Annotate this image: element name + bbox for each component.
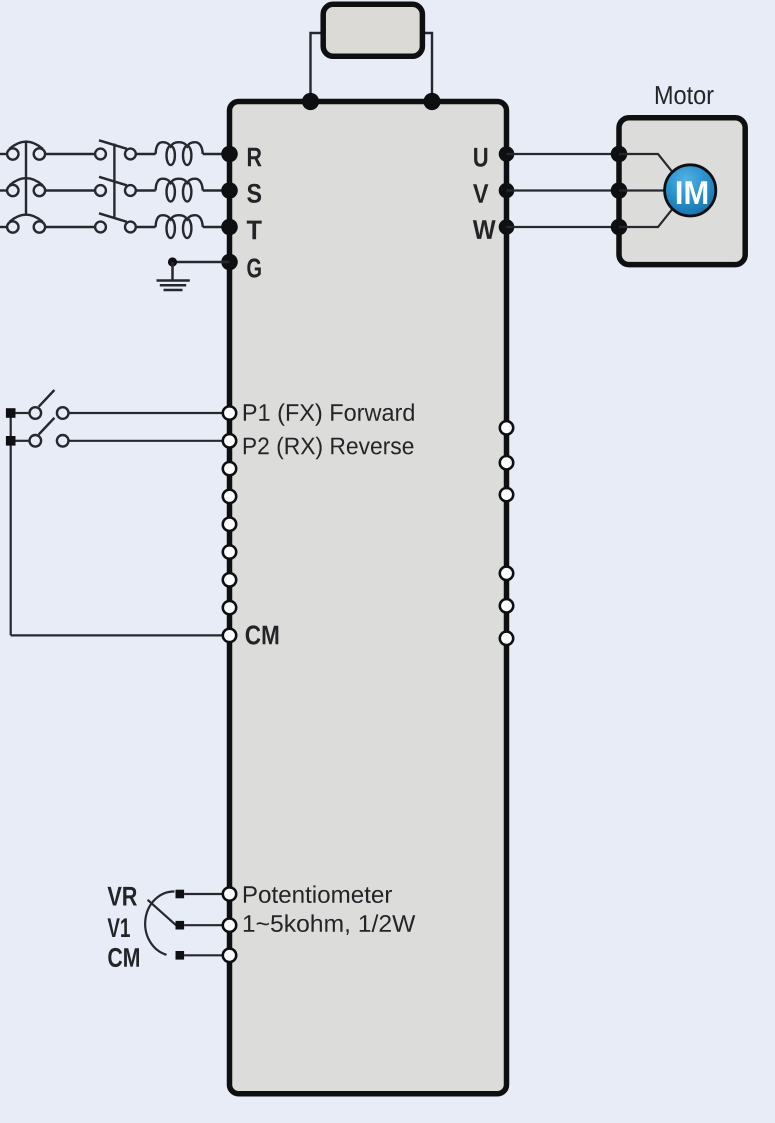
wire from top module left lead to drive top [311,33,324,102]
junction dot P(+) on drive top [302,93,319,110]
wire W drive to motor [507,226,620,228]
wire from top module right lead to drive top [422,33,432,102]
drive right terminal circle 1 [500,421,513,434]
MCCB breaker pole T: terminals and arc [7,215,45,233]
potentiometer label VR [108,887,138,906]
label P2 (RX) Reverse [244,437,414,459]
drive left terminal circle 7 [223,573,236,586]
label P1 (FX) Forward [244,403,414,425]
wire breaker to contactor S [45,189,95,191]
wire switch P1 to drive [69,412,230,414]
wire switch P2 to drive [69,440,230,442]
switch P2 contacts and blade [30,418,69,447]
IM label [677,181,707,204]
potentiometer label V1 [108,918,130,937]
AC reactor coil R [156,142,203,165]
terminal label T [247,221,262,240]
top option module box [323,4,422,56]
inverter drive body [230,102,507,1094]
drive input terminal dot S [221,182,238,199]
wire reactor to drive terminal R [203,153,230,155]
drive output terminal dot W [499,219,515,235]
wire U drive to motor [507,153,620,155]
drive ground terminal dot G [221,254,238,271]
contactor link bar [113,144,115,219]
output terminal label V [473,184,488,203]
switch P2 terminal square [6,436,16,446]
motor internal wire V [619,189,665,191]
drive left terminal circle 5 [223,518,236,531]
AC reactor coil T [156,215,203,238]
wire square to switch P2 [16,440,30,442]
drive left terminal circle 1 [223,406,236,419]
motor terminal dot V [611,182,628,199]
switch P1 contacts and blade [30,390,69,419]
magnetic contactor pole S [95,177,136,196]
terminal label R [248,148,262,167]
drive left terminal circle 2 [223,434,236,447]
drive right terminal circle 5 [500,599,513,612]
motor internal wire W [619,206,675,228]
label 1~5kohm 1/2W [244,914,415,935]
ground symbol [157,262,190,290]
magnetic contactor pole R [95,140,136,159]
wire breaker to contactor T [45,226,95,228]
wire contactor to AC reactor R [136,153,156,155]
drive left terminal circle 9 [223,629,236,642]
motor body box [619,118,745,265]
potentiometer label CM [108,948,139,967]
drive analog terminal circle CM [223,949,236,962]
label CM [246,625,279,644]
wire contactor to AC reactor T [136,226,156,228]
drive left terminal circle 6 [223,545,236,558]
output terminal label W [473,220,496,239]
MCCB breaker pole S: terminals and arc [7,178,45,196]
switch P1 terminal square [6,408,16,418]
potentiometer terminal square V1 [176,921,185,930]
drive right terminal circle 4 [500,567,513,580]
drive right terminal circle 6 [500,632,513,645]
motor terminal dot U [611,146,628,163]
wire G terminal to ground [173,261,230,263]
drive left terminal circle 3 [223,462,236,475]
junction dot N(-) on drive top [423,93,440,110]
drive right terminal circle 2 [500,456,513,469]
potentiometer wiper [148,900,176,925]
drive analog terminal circle VR [223,887,236,900]
IM induction motor circle [665,165,716,216]
drive input terminal dot R [221,146,238,163]
drive left terminal circle 4 [223,490,236,503]
motor internal wire U [619,154,675,176]
wire breaker to contactor R [45,153,95,155]
drive output terminal dot V [499,183,515,199]
wire square to switch P1 [16,412,30,414]
drive output terminal dot U [499,146,515,162]
ground junction dot [168,257,177,266]
label Potentiometer [244,885,392,903]
wire contactor to AC reactor S [136,189,156,191]
wire reactor to drive terminal S [203,189,230,191]
drive right terminal circle 3 [500,488,513,501]
incoming supply wire phase R [0,153,7,155]
motor label [656,86,714,104]
potentiometer terminal square VR [176,890,185,899]
terminal label G [247,258,260,277]
drive input terminal dot T [221,219,238,236]
wire VR to drive [184,893,229,895]
motor terminal dot W [611,219,628,236]
incoming supply wire phase T [0,226,7,228]
magnetic contactor pole T [95,213,136,232]
switch common bus vertical wire [10,413,12,635]
drive analog terminal circle V1 [223,919,236,932]
wire V1 to drive [184,924,229,926]
potentiometer terminal square CM [176,951,185,960]
incoming supply wire phase S [0,189,7,191]
wire reactor to drive terminal T [203,226,230,228]
MCCB breaker pole R: terminals and arc [7,142,45,160]
terminal label S [247,184,261,203]
drive left terminal circle 8 [223,601,236,614]
wire V drive to motor [507,189,620,191]
potentiometer resistive arc [145,891,174,954]
AC reactor coil S [156,179,203,202]
wire CM to drive [184,954,229,956]
output terminal label U [474,148,487,167]
wire CM bus to drive [11,634,230,636]
MCCB trip bar [25,142,27,216]
